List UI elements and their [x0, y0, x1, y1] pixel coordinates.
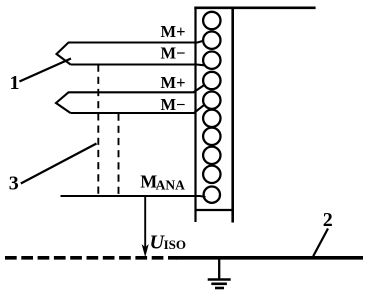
terminal block left edge: [194, 7, 196, 222]
ground symbol bar 3: [215, 287, 224, 290]
cable 2 shield tip: [56, 92, 71, 113]
U_ISO arrow wire: [144, 196, 146, 248]
terminal circle 5: [203, 92, 220, 109]
svg-text:ANA: ANA: [156, 177, 185, 192]
svg-text:ISO: ISO: [164, 237, 186, 252]
leader line for label 2: [313, 229, 328, 257]
M_ANA wire to terminal 10: [61, 196, 206, 197]
svg-text:M+: M+: [161, 22, 186, 41]
terminal circle 6: [203, 110, 220, 127]
svg-text:3: 3: [9, 172, 19, 194]
terminal circle 4: [203, 72, 220, 89]
terminal circle 2: [203, 32, 220, 49]
terminal circle 3: [203, 52, 220, 69]
wire M+ cable1 to terminal 2: [68, 41, 203, 43]
terminal circle 7: [203, 128, 220, 145]
leader line for label 1: [19, 59, 71, 82]
U_ISO arrowhead: [142, 245, 148, 256]
ground symbol bar 2: [211, 282, 227, 285]
wire M+ cable2 to terminal 4: [68, 85, 204, 92]
terminal circle 1: [203, 12, 220, 29]
dashed isolation line: [5, 256, 177, 260]
terminal block right edge: [231, 7, 234, 223]
terminal circle 9: [203, 166, 220, 183]
cable 1 shield tip: [57, 43, 71, 65]
leader line for label 3: [21, 144, 97, 184]
terminal block top edge and top wire: [194, 7, 315, 10]
svg-text:M−: M−: [161, 95, 186, 114]
terminal circle 10: [204, 187, 220, 203]
ground symbol bar 1: [208, 278, 231, 281]
dashed shield wire from cable 1: [97, 65, 99, 197]
ground symbol stem: [218, 259, 220, 280]
wire M- cable1 to terminal 3: [71, 63, 205, 66]
svg-text:1: 1: [10, 72, 20, 94]
dashed shield wire from cable 2: [118, 114, 120, 197]
svg-text:M−: M−: [161, 43, 186, 62]
ground bus line: [176, 256, 363, 260]
terminal circle 8: [203, 147, 220, 164]
terminal block bottom separator: [195, 209, 234, 211]
svg-text:2: 2: [323, 209, 333, 231]
wire M- cable2 to terminal 5: [71, 105, 205, 113]
svg-text:M+: M+: [161, 73, 186, 92]
